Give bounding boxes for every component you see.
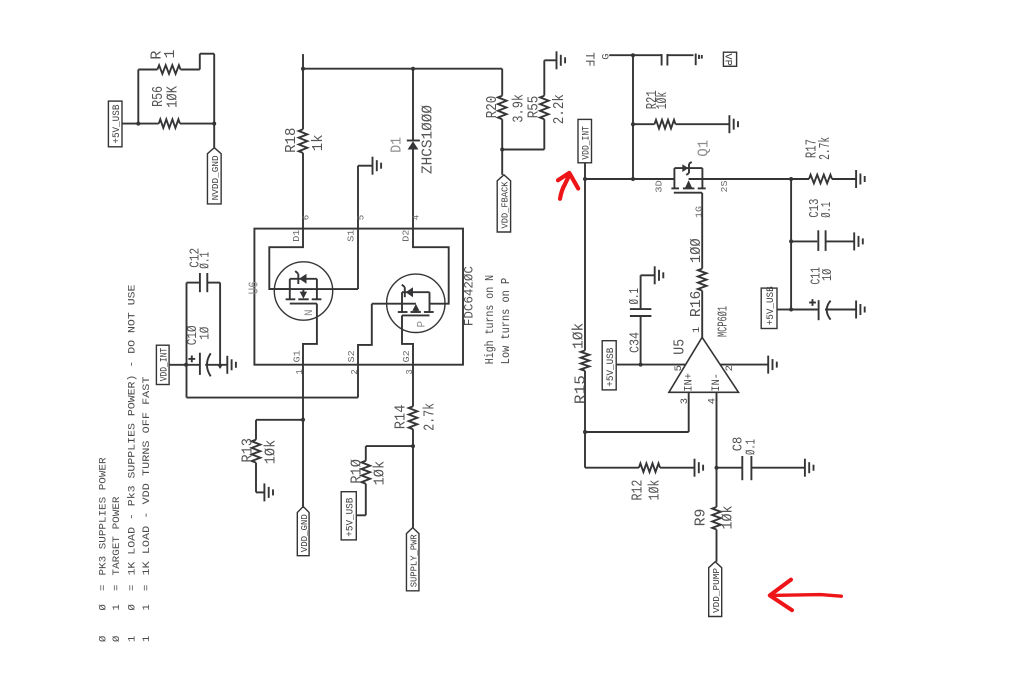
svg-text:1G: 1G: [694, 206, 705, 218]
svg-text:R1Ø: R1Ø: [349, 459, 366, 484]
svg-text:1K LOAD - Pk3 SUPPLIES POWER): 1K LOAD - Pk3 SUPPLIES POWER) - DO NOT U…: [126, 285, 138, 576]
svg-text:TF: TF: [582, 52, 597, 67]
svg-text:1k: 1k: [310, 134, 327, 151]
svg-text:IN-: IN-: [711, 373, 723, 392]
svg-text:High turns on N: High turns on N: [484, 275, 497, 364]
svg-text:P: P: [417, 321, 429, 328]
svg-text:R18: R18: [283, 128, 300, 153]
svg-text:SUPPLY_PWR: SUPPLY_PWR: [408, 534, 419, 587]
svg-text:1Øk: 1Øk: [571, 323, 588, 349]
svg-text:2S: 2S: [719, 180, 730, 192]
svg-text:R13: R13: [240, 438, 257, 463]
svg-text:Ø.1: Ø.1: [743, 439, 759, 455]
svg-text:6: 6: [301, 215, 311, 220]
svg-text:C34: C34: [628, 332, 644, 353]
svg-text:1: 1: [691, 327, 703, 333]
svg-text:1Øk: 1Øk: [655, 92, 671, 110]
svg-text:2.7k: 2.7k: [421, 403, 438, 431]
svg-text:PK3 SUPPLIES POWER: PK3 SUPPLIES POWER: [97, 457, 109, 576]
svg-text:+5V_USB: +5V_USB: [345, 498, 357, 537]
svg-text:NVDD_GND: NVDD_GND: [210, 155, 221, 200]
svg-text:IN+: IN+: [684, 373, 696, 392]
svg-text:4: 4: [411, 215, 421, 220]
svg-text:VDD_GND: VDD_GND: [299, 514, 310, 552]
svg-text:R14: R14: [393, 405, 410, 430]
svg-text:=: =: [141, 585, 153, 591]
svg-text:N: N: [304, 309, 316, 316]
svg-text:1ØK: 1ØK: [164, 86, 181, 108]
svg-text:D1: D1: [389, 137, 406, 153]
svg-text:1Øk: 1Øk: [647, 480, 664, 501]
svg-text:FDC642ØC: FDC642ØC: [461, 266, 476, 326]
svg-text:+5V_USB: +5V_USB: [605, 348, 617, 387]
svg-text:Ø: Ø: [126, 604, 138, 610]
svg-text:VDD_INT: VDD_INT: [159, 348, 171, 382]
svg-text:Ø: Ø: [97, 604, 109, 610]
svg-text:Low turns on P: Low turns on P: [500, 278, 513, 364]
svg-text:1Øk: 1Øk: [371, 461, 388, 486]
svg-text:D2: D2: [401, 229, 412, 242]
svg-text:1: 1: [162, 49, 179, 58]
svg-text:1: 1: [126, 636, 138, 642]
svg-text:5: 5: [673, 365, 685, 371]
svg-text:1: 1: [111, 604, 123, 610]
svg-text:S1: S1: [346, 229, 357, 242]
svg-text:2.2k: 2.2k: [551, 94, 568, 124]
svg-text:R55: R55: [526, 96, 543, 119]
svg-text:R15: R15: [573, 375, 590, 404]
svg-text:Ø: Ø: [97, 636, 109, 642]
svg-text:1Øk: 1Øk: [263, 440, 280, 465]
svg-text:1ØØ: 1ØØ: [688, 238, 705, 263]
svg-text:VDD_PUMP: VDD_PUMP: [711, 568, 722, 613]
svg-text:Ø.1: Ø.1: [627, 288, 643, 305]
svg-text:+5V_USB: +5V_USB: [765, 286, 777, 325]
svg-text:U6: U6: [247, 281, 263, 294]
svg-text:1Ø: 1Ø: [820, 269, 836, 281]
svg-text:ZHCS1ØØØ: ZHCS1ØØØ: [420, 105, 437, 174]
svg-text:U5: U5: [671, 339, 688, 355]
svg-text:Ø.1: Ø.1: [199, 252, 214, 269]
svg-text:Q1: Q1: [696, 140, 713, 157]
svg-text:+5V_USB: +5V_USB: [111, 105, 123, 144]
svg-text:TARGET POWER: TARGET POWER: [111, 496, 123, 576]
svg-text:1: 1: [141, 636, 153, 642]
svg-text:2.7k: 2.7k: [818, 137, 834, 160]
svg-text:VDD_INT: VDD_INT: [581, 126, 593, 160]
svg-text:=: =: [126, 585, 138, 591]
svg-text:1: 1: [141, 604, 153, 610]
svg-text:R20: R20: [484, 96, 501, 119]
svg-text:2: 2: [724, 365, 736, 371]
svg-text:R16: R16: [688, 291, 705, 318]
svg-text:3D: 3D: [653, 180, 664, 193]
svg-text:Ø: Ø: [111, 636, 123, 642]
svg-text:VDD_FBACK: VDD_FBACK: [500, 181, 511, 228]
svg-text:=: =: [97, 585, 109, 591]
svg-text:D1: D1: [291, 229, 302, 242]
svg-text:1Ø: 1Ø: [198, 327, 214, 340]
svg-text:G2: G2: [401, 350, 412, 363]
svg-text:Ø.1: Ø.1: [819, 202, 835, 218]
svg-text:1K LOAD - VDD TURNS OFF FAST: 1K LOAD - VDD TURNS OFF FAST: [141, 377, 153, 576]
svg-text:VP: VP: [721, 53, 733, 66]
svg-text:MCP6Ø1: MCP6Ø1: [716, 306, 732, 337]
svg-text:1Øk: 1Øk: [720, 505, 737, 529]
svg-text:S2: S2: [346, 350, 357, 363]
svg-text:R12: R12: [630, 480, 647, 501]
svg-text:=: =: [111, 585, 123, 591]
svg-text:R9: R9: [692, 509, 709, 527]
svg-text:5: 5: [356, 215, 366, 220]
svg-text:G1: G1: [292, 350, 303, 363]
